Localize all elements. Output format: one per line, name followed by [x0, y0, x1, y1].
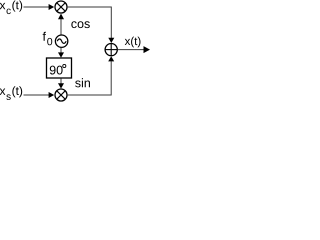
- arrowhead down into M2: [58, 83, 64, 88]
- wire M2 to adder (horizontal then up): [67, 61, 111, 95]
- node x_s(t) input label: [0, 86, 22, 100]
- output wire x(t): [118, 49, 144, 51]
- node x_c(t) input label: [0, 1, 22, 15]
- label f_0: [43, 32, 53, 46]
- multiplier M2 (bottom, x_s times sin): [55, 89, 67, 101]
- wire M1 to adder (horizontal then down): [67, 7, 111, 38]
- wire box to M2 (down): [60, 79, 62, 84]
- label x(t): [125, 37, 141, 48]
- wire x_s(t) to multiplier M2: [24, 94, 50, 96]
- arrowhead into M1: [49, 4, 55, 10]
- label 90 degrees: [50, 64, 66, 74]
- wire x_c(t) to multiplier M1: [24, 6, 50, 8]
- arrowhead up into M1: [58, 14, 64, 20]
- adder (circle with plus): [105, 43, 118, 56]
- wire oscillator to M1 (up): [60, 19, 62, 35]
- arrowhead into adder top: [108, 38, 114, 43]
- arrowhead into M2: [49, 92, 55, 98]
- multiplier M1 (top, x_c times cos): [55, 1, 67, 13]
- oscillator (circle with sine): [55, 35, 67, 47]
- arrowhead into adder bottom: [108, 56, 114, 61]
- arrowhead down into box: [58, 52, 64, 57]
- phase shifter box 90deg: [47, 58, 72, 78]
- wire oscillator to 90deg box (down): [60, 48, 62, 53]
- label cos: [71, 21, 89, 28]
- label sin: [75, 78, 90, 87]
- output arrowhead: [144, 46, 151, 53]
